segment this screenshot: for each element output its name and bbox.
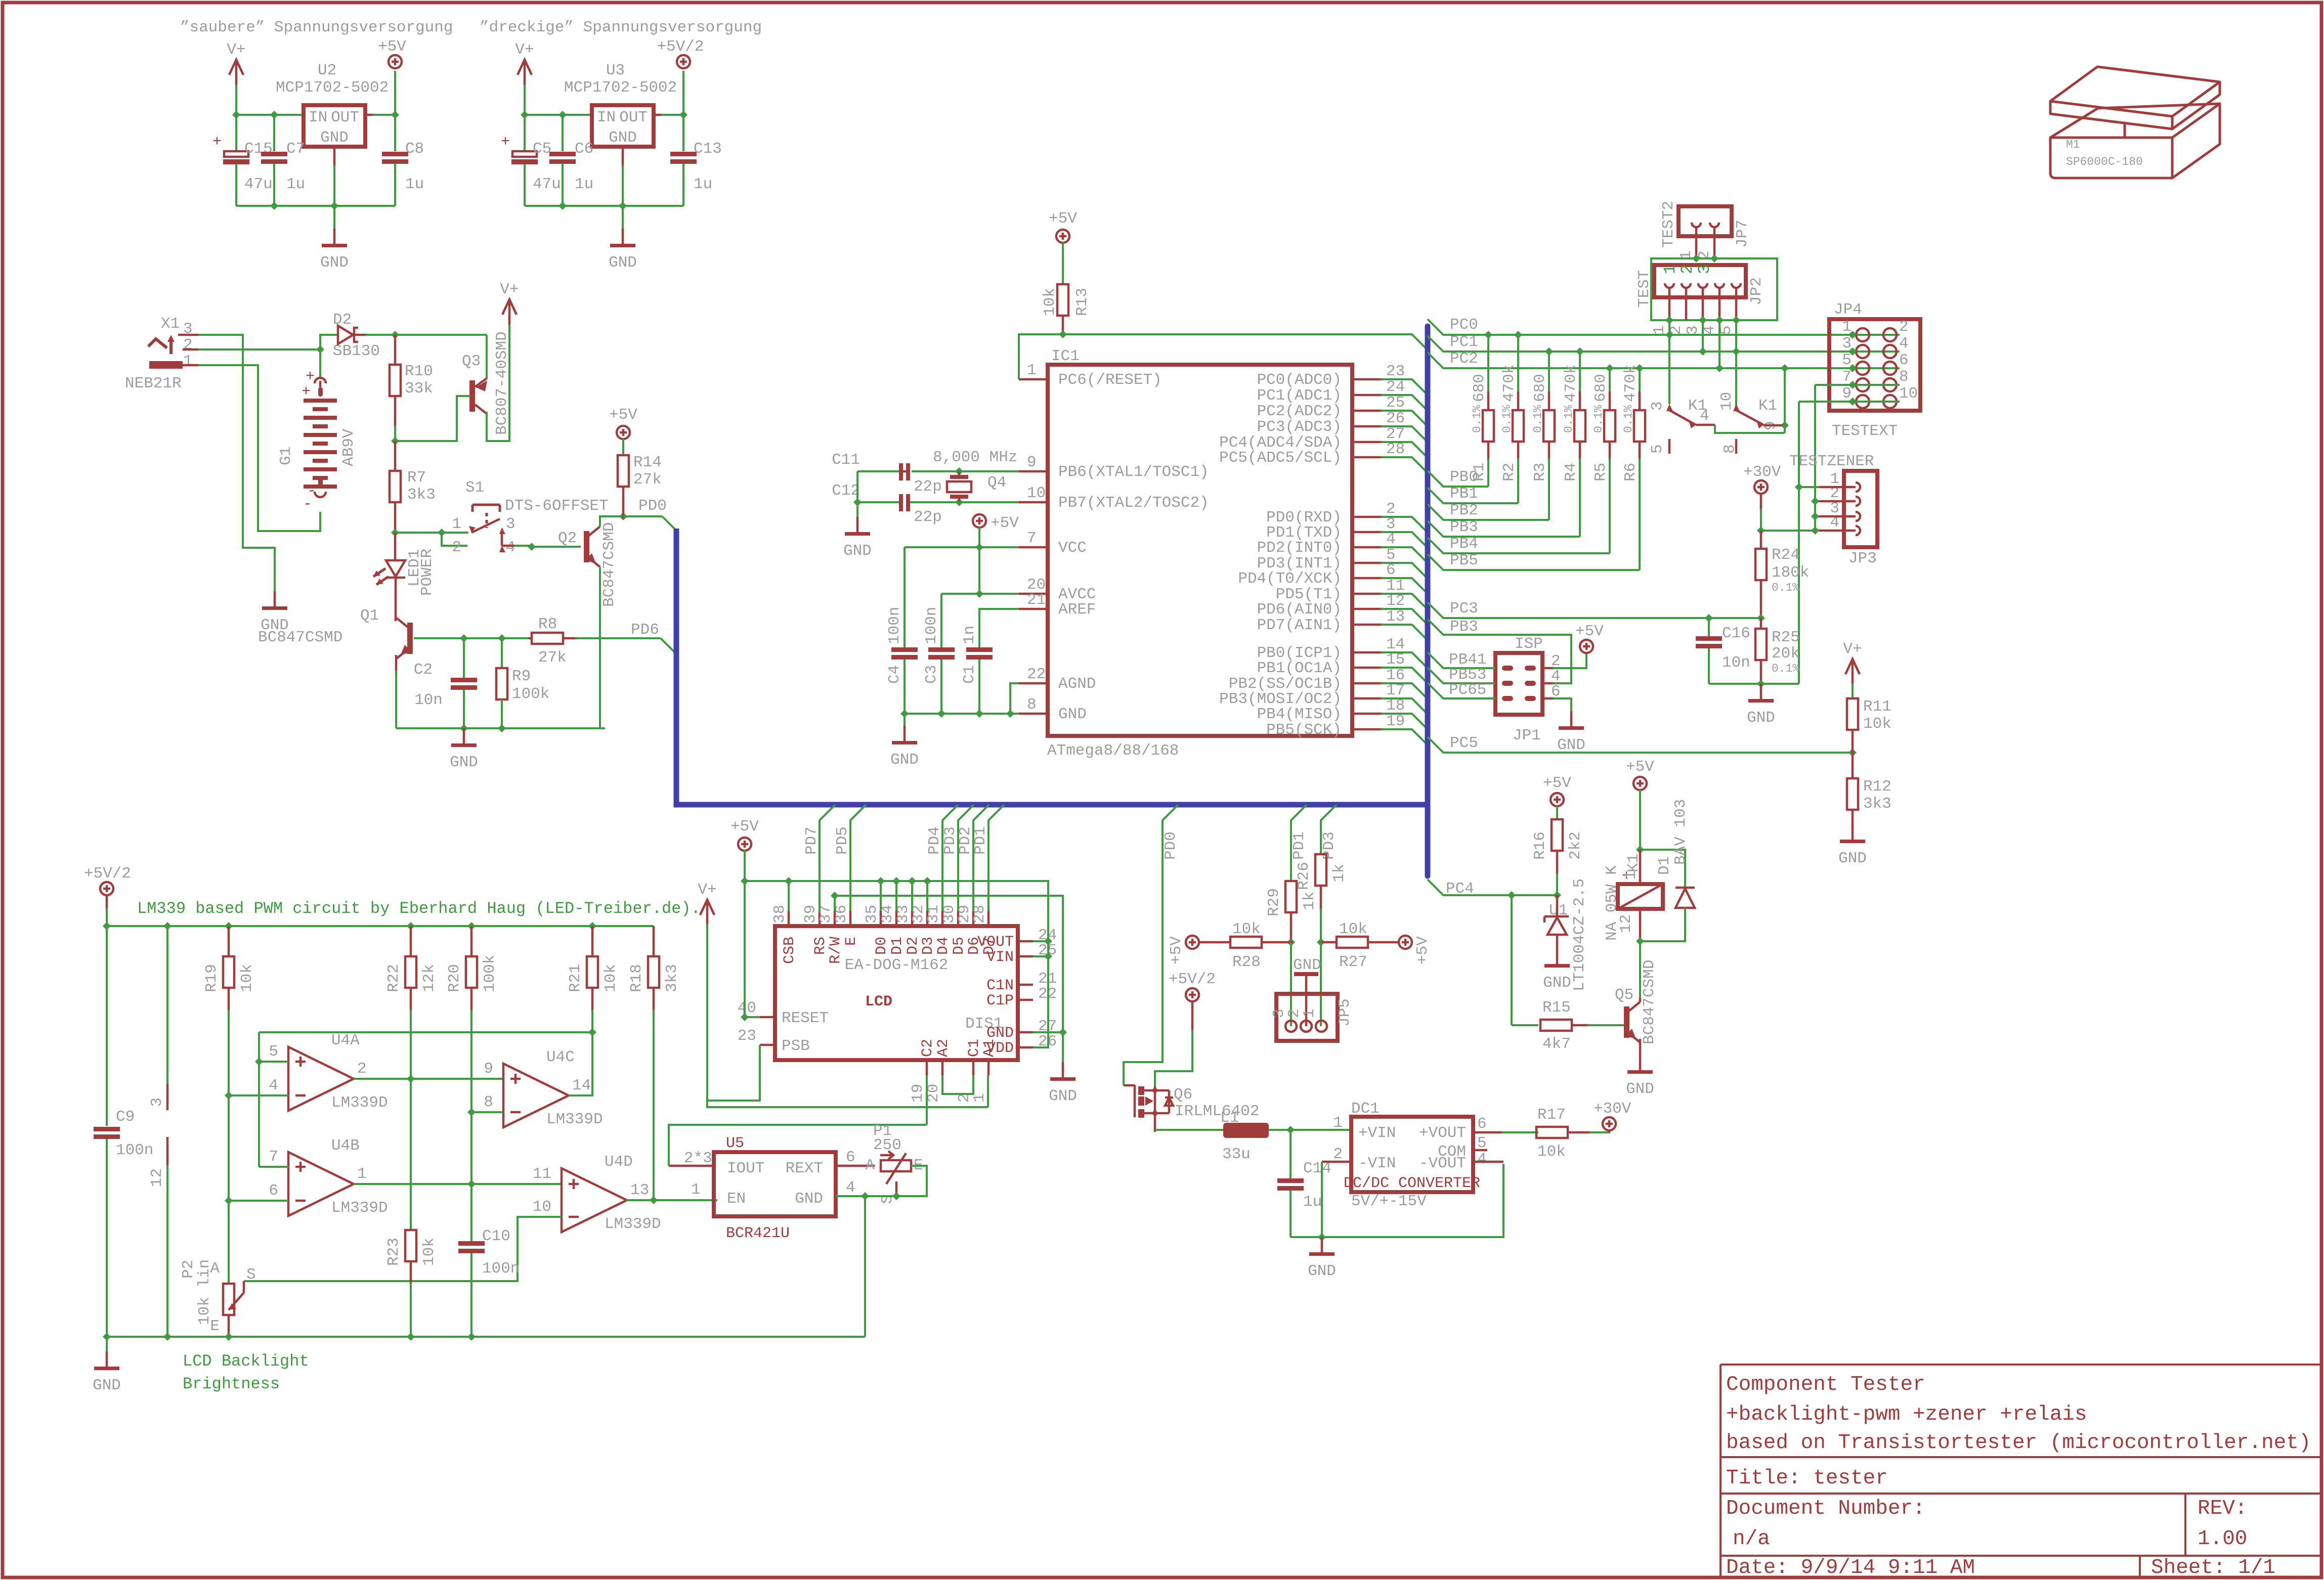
svg-text:A1: A1 — [981, 1039, 998, 1057]
DIS1 pin 32 D3 — [926, 911, 929, 926]
svg-text:R5: R5 — [1592, 463, 1610, 481]
wire — [1556, 806, 1558, 819]
junction — [225, 1197, 233, 1205]
junction — [407, 922, 415, 930]
svg-text:+: + — [501, 134, 510, 151]
wire P2 bottom — [228, 1315, 230, 1339]
wire IC1 pin 5 to bus — [1381, 563, 1427, 578]
svg-text:4: 4 — [1477, 1151, 1487, 1168]
V+ supply symbol — [502, 299, 517, 315]
svg-text:V+: V+ — [500, 281, 519, 298]
wire S1 pin4 stub — [502, 545, 516, 547]
svg-text:6: 6 — [846, 1149, 855, 1166]
resistor R6 — [1634, 410, 1645, 442]
junction — [1811, 497, 1819, 505]
junction — [407, 1075, 415, 1083]
capacitor C14 — [1277, 1178, 1304, 1183]
wire — [1799, 486, 1821, 488]
wire R21 bottom — [591, 1010, 593, 1032]
wire R25 top — [1760, 618, 1762, 629]
wire to JP5 pin3 — [1290, 942, 1292, 1026]
junction — [1848, 749, 1857, 757]
capacitor C5 (polarized) — [512, 151, 537, 157]
wire — [988, 805, 1004, 911]
svg-text:680: 680 — [1592, 374, 1610, 402]
wire R20 bottom — [470, 988, 473, 1012]
svg-text:R23: R23 — [385, 1238, 403, 1266]
connector JP5 — [1276, 994, 1338, 1041]
svg-text:10: 10 — [533, 1198, 551, 1216]
wire U2 GND pin — [333, 147, 336, 167]
wire +5V to VCC/AVCC — [978, 527, 980, 594]
wire Q1 collector — [395, 607, 397, 621]
junction — [407, 1333, 415, 1341]
svg-text:PC2: PC2 — [1450, 350, 1478, 368]
svg-text:22p: 22p — [914, 478, 942, 496]
svg-text:1u: 1u — [1303, 1193, 1322, 1211]
wire — [562, 164, 564, 206]
svg-text:100k: 100k — [481, 955, 499, 992]
wire R21 bottom — [591, 988, 594, 1012]
wire IC1 pin 15 to bus — [1381, 668, 1427, 682]
svg-text:+5V: +5V — [378, 38, 406, 56]
svg-text:PB0: PB0 — [1450, 468, 1478, 486]
wire R29 bottom — [1290, 912, 1293, 942]
wire R26 bottom — [1320, 886, 1322, 910]
svg-text:C16: C16 — [1722, 625, 1750, 642]
svg-text:7: 7 — [269, 1148, 278, 1166]
wire stem — [106, 895, 108, 910]
svg-text:PD4: PD4 — [926, 826, 943, 855]
wire U5 IOUT — [669, 1165, 714, 1167]
svg-text:GND: GND — [609, 254, 637, 272]
svg-text:1n: 1n — [961, 626, 978, 644]
svg-text:BC847CSMD: BC847CSMD — [600, 522, 618, 607]
svg-text:C8: C8 — [405, 140, 424, 158]
DIS1 pin 28 D7 — [987, 911, 990, 926]
wire IN net — [525, 114, 592, 116]
wire R1 top — [1487, 335, 1489, 393]
DIS1 pin 27 GND — [1018, 1031, 1033, 1034]
wire — [1428, 652, 1495, 668]
wire feedback — [259, 1031, 592, 1033]
wire PB3 line — [1428, 521, 1580, 537]
svg-text:PD0: PD0 — [638, 497, 667, 515]
svg-text:20k: 20k — [1772, 645, 1800, 663]
junction — [270, 111, 278, 119]
junction — [1044, 952, 1052, 960]
svg-text:C5: C5 — [533, 140, 551, 158]
svg-text:LM339D: LM339D — [546, 1111, 603, 1128]
svg-text:23: 23 — [738, 1027, 756, 1045]
wire — [1548, 458, 1550, 520]
wire — [486, 335, 488, 379]
svg-text:PC5(ADC5/SCL): PC5(ADC5/SCL) — [1219, 449, 1342, 467]
svg-text:1: 1 — [1027, 362, 1037, 379]
wire — [333, 206, 335, 229]
wire — [273, 164, 275, 206]
svg-text:40: 40 — [738, 999, 756, 1017]
junction — [1732, 316, 1740, 324]
supply symbol +5V — [1056, 230, 1069, 243]
wire gnd rail — [236, 205, 395, 207]
svg-text:X1: X1 — [161, 315, 180, 333]
op-amp U4A (LM339D comparator) — [288, 1047, 354, 1111]
capacitor C15 (polarized) — [224, 151, 248, 157]
wire R20 top — [470, 926, 473, 956]
svg-text:-VOUT: -VOUT — [1419, 1155, 1466, 1172]
svg-text:1: 1 — [1622, 870, 1640, 880]
wire JP2-4 to PC2 — [1718, 320, 1720, 368]
svg-text:GND: GND — [1557, 736, 1585, 754]
wire — [1815, 500, 1821, 502]
wire U4B +in — [259, 1166, 288, 1168]
wire C11 left — [857, 470, 899, 472]
svg-text:SP6000C-180: SP6000C-180 — [2066, 155, 2143, 168]
wire — [835, 896, 1063, 1032]
svg-text:V+: V+ — [515, 41, 534, 59]
capacitor C4 — [891, 647, 918, 652]
supply symbol +5V — [617, 426, 630, 439]
svg-text:6: 6 — [1899, 352, 1909, 369]
ground — [463, 728, 465, 743]
junction — [1286, 1126, 1295, 1134]
svg-text:1u: 1u — [286, 175, 305, 193]
IC1 pin 23 PC0(ADC0) — [1352, 378, 1383, 381]
svg-text:GND: GND — [1626, 1080, 1654, 1098]
svg-text:JP3: JP3 — [1848, 550, 1877, 567]
junction — [1006, 710, 1014, 718]
DIS1 pin 29 D6 — [972, 911, 975, 926]
wire JP2-1 to PC0/K1 — [1668, 320, 1670, 404]
svg-text:8: 8 — [1899, 368, 1909, 386]
wire — [942, 805, 958, 911]
DIS1 pin 21 C1N — [1018, 984, 1033, 986]
DIS1 pin 37 R/W — [834, 911, 836, 926]
svg-text:REV:: REV: — [2198, 1497, 2247, 1520]
wire — [106, 1139, 108, 1337]
wire to JP5 pin1 — [1320, 942, 1322, 1026]
svg-text:Document Number:: Document Number: — [1726, 1497, 1925, 1520]
wire U4B -in — [229, 1200, 288, 1202]
supply symbol +5V — [973, 514, 986, 528]
svg-text:0.1%: 0.1% — [1562, 405, 1575, 433]
svg-text:+5V/2: +5V/2 — [657, 38, 704, 56]
svg-text:PB4(MISO): PB4(MISO) — [1257, 706, 1342, 723]
svg-text:LM339 based PWM circuit by Ebe: LM339 based PWM circuit by Eberhard Haug… — [137, 899, 701, 918]
wire X1-3 to GND — [198, 335, 275, 592]
junction — [975, 543, 983, 551]
wire PC2 line — [1428, 353, 1900, 368]
svg-text:RESET: RESET — [782, 1010, 829, 1027]
wire — [1589, 1131, 1609, 1132]
wire R5 top — [1609, 368, 1611, 393]
svg-text:10k: 10k — [1537, 1143, 1566, 1161]
junction — [1715, 364, 1724, 372]
wire U4C out — [569, 1032, 592, 1095]
wire IC1 pin 23 to bus — [1381, 379, 1427, 394]
svg-text:8,000 MHz: 8,000 MHz — [933, 449, 1017, 466]
wire — [107, 925, 654, 927]
svg-text:GND: GND — [843, 542, 872, 560]
wire R28 left — [1198, 941, 1230, 944]
junction — [1848, 381, 1857, 389]
wire — [682, 71, 684, 115]
wire R1 bottom — [1487, 442, 1490, 460]
wire — [622, 206, 624, 229]
wire — [1512, 1024, 1538, 1026]
svg-text:S1: S1 — [465, 479, 484, 497]
junction — [1699, 316, 1707, 324]
wire R3 bottom — [1548, 442, 1551, 460]
wire C14 top — [1289, 1130, 1292, 1178]
svg-text:R18: R18 — [628, 964, 645, 992]
DIS1 pin 25 VIN — [1018, 955, 1033, 958]
wire IC1 pin 11 to bus — [1381, 594, 1427, 608]
svg-text:PC5: PC5 — [1450, 734, 1478, 752]
svg-text:25: 25 — [1386, 394, 1405, 412]
svg-text:R13: R13 — [1073, 288, 1091, 316]
supply symbol +5V — [1399, 936, 1412, 949]
junction — [1553, 891, 1561, 899]
wire U5 EN stub — [714, 1199, 715, 1202]
svg-text:6: 6 — [1386, 561, 1396, 579]
svg-text:RS: RS — [812, 937, 829, 955]
junction — [558, 111, 567, 119]
svg-text:GND: GND — [450, 754, 478, 771]
svg-text:9: 9 — [484, 1060, 493, 1078]
svg-text:C6: C6 — [575, 140, 593, 158]
junction — [1710, 254, 1718, 262]
wire — [394, 425, 396, 441]
DIS1 pin 20 A2 — [941, 1060, 944, 1075]
svg-text:D7: D7 — [981, 937, 998, 955]
svg-text:2: 2 — [1899, 318, 1909, 336]
wire U5 REXT to P1 — [836, 1165, 875, 1167]
IC1 pin 19 PB5(SCK) — [1352, 728, 1383, 731]
junction — [1848, 331, 1857, 339]
wire — [1155, 1030, 1192, 1086]
ground — [1062, 1062, 1064, 1077]
supply symbol +5V — [1186, 936, 1199, 949]
op-amp U4C (LM339D comparator) — [503, 1064, 569, 1127]
svg-text:C4: C4 — [886, 665, 903, 684]
wire zener gnd rail — [1709, 683, 1799, 685]
wire PD0 bus entry — [662, 516, 676, 530]
wire Q3 base to node — [395, 396, 470, 441]
wire R5 bottom — [1609, 442, 1611, 460]
svg-text:D4: D4 — [935, 937, 952, 955]
svg-text:U4A: U4A — [331, 1032, 360, 1049]
junction — [1514, 331, 1522, 339]
wire — [1062, 333, 1064, 335]
wire — [273, 115, 275, 151]
ground — [106, 1351, 108, 1367]
svg-text:R2: R2 — [1500, 463, 1518, 481]
svg-text:C7: C7 — [286, 140, 305, 158]
svg-text:Q5: Q5 — [1615, 986, 1633, 1004]
svg-text:470k: 470k — [1562, 365, 1580, 402]
wire R22 bottom — [410, 1010, 412, 1079]
svg-text:GND: GND — [1838, 850, 1867, 867]
svg-text:100n: 100n — [923, 607, 940, 644]
junction — [975, 710, 983, 718]
wire — [1852, 825, 1854, 827]
junction — [391, 529, 399, 537]
svg-text:PD6(AIN0): PD6(AIN0) — [1257, 601, 1342, 619]
capacitor C16 — [1696, 636, 1722, 641]
junction — [1692, 254, 1700, 262]
wire JP2-5 to PC1/K1-10 — [1735, 320, 1737, 408]
wire C12 left — [857, 501, 899, 503]
wire L1 to DC1 — [1269, 1129, 1351, 1131]
svg-text:Q1: Q1 — [360, 607, 379, 625]
wire — [987, 1075, 989, 1107]
DIS1 pin 40 RESET — [760, 1016, 775, 1019]
svg-text:R9: R9 — [512, 668, 531, 685]
resistor R4 — [1574, 410, 1585, 442]
wire C3 top — [940, 594, 942, 648]
junction — [1715, 316, 1724, 324]
DIS1 pin 38 CSB — [788, 911, 790, 926]
IC1 pin 21 AREF — [1019, 608, 1048, 610]
svg-text:470k: 470k — [1500, 365, 1518, 402]
wire Q2 collector — [600, 516, 623, 526]
svg-text:+5V: +5V — [1543, 774, 1571, 792]
svg-text:+VIN: +VIN — [1358, 1124, 1396, 1142]
wire IC1 pin 14 to bus — [1381, 652, 1427, 667]
svg-text:BC847CSMD: BC847CSMD — [1641, 960, 1658, 1044]
svg-text:0.1%: 0.1% — [1772, 662, 1799, 675]
wire pin10 net — [912, 501, 1019, 503]
junction — [225, 1333, 233, 1341]
resistor R8 — [532, 633, 563, 644]
wire — [235, 115, 237, 151]
svg-text:PC2(ADC2): PC2(ADC2) — [1257, 403, 1342, 420]
JP7 pin 1 — [1692, 223, 1701, 227]
wire AREF to C1 — [979, 609, 1019, 648]
svg-text:12: 12 — [148, 1168, 166, 1187]
svg-text:5: 5 — [269, 1043, 278, 1061]
wire — [958, 805, 974, 911]
svg-text:1: 1 — [452, 515, 461, 533]
wire — [1033, 1031, 1063, 1033]
svg-text:K1: K1 — [1758, 397, 1777, 415]
svg-text:EN: EN — [727, 1190, 746, 1208]
wire IC1 pin 17 to bus — [1381, 698, 1427, 713]
wire R4 bottom — [1579, 442, 1581, 460]
svg-text:PB7(XTAL2/TOSC2): PB7(XTAL2/TOSC2) — [1058, 494, 1209, 512]
JP2 pin 3 — [1698, 283, 1707, 288]
svg-text:10k: 10k — [1339, 920, 1367, 938]
svg-text:10n: 10n — [414, 691, 443, 709]
svg-text:PD1: PD1 — [1290, 831, 1308, 860]
DIS1 pin 35 D0 — [880, 911, 882, 926]
svg-text:PD2(INT0): PD2(INT0) — [1257, 539, 1342, 557]
IC1 pin 28 PC5(ADC5/SCL) — [1352, 456, 1383, 459]
DIS1 pin 31 D4 — [941, 911, 944, 926]
wire PD0 net — [623, 515, 662, 517]
wire LED1 cathode — [395, 578, 397, 607]
svg-text:Q4: Q4 — [987, 474, 1006, 492]
svg-text:GND: GND — [320, 254, 349, 272]
wire battery + stub — [319, 349, 321, 379]
svg-text:15: 15 — [1386, 651, 1405, 669]
wire C9 top — [106, 926, 108, 1126]
DIS1 pin 30 D5 — [957, 911, 960, 926]
svg-text:-: - — [303, 496, 312, 513]
junction — [1665, 316, 1673, 324]
svg-text:1: 1 — [1301, 1008, 1318, 1018]
capacitor C13 — [670, 152, 697, 156]
wire R12 bottom — [1852, 810, 1854, 829]
svg-text:Q3: Q3 — [462, 353, 481, 370]
wire — [1320, 908, 1322, 942]
IC1 pin 27 PC4(ADC4/SDA) — [1352, 441, 1383, 444]
wire IN net — [236, 114, 304, 116]
IC1 pin 17 PB3(MOSI/OC2) — [1352, 697, 1383, 700]
wire to R23 — [410, 1079, 412, 1230]
svg-text:47u: 47u — [244, 175, 273, 193]
svg-text:19: 19 — [1386, 713, 1405, 730]
wire — [1428, 619, 1571, 683]
wire R7 bottom — [394, 502, 397, 533]
svg-text:VCC: VCC — [1058, 539, 1087, 557]
DIS1 pin 2 C1 — [972, 1060, 975, 1075]
IC1 pin 16 PB2(SS/OC1B) — [1352, 682, 1383, 685]
junction — [558, 202, 567, 210]
svg-text:1u: 1u — [694, 175, 712, 193]
wire — [394, 115, 396, 151]
wire Q5 emitter — [1639, 1039, 1642, 1056]
wire IC1 pin 25 to bus — [1381, 411, 1427, 425]
wire — [394, 164, 396, 206]
junction — [1699, 347, 1707, 356]
svg-text:MCP1702-5002: MCP1702-5002 — [276, 79, 389, 97]
wire DC1 -VIN — [1322, 1161, 1351, 1163]
svg-text:3: 3 — [1684, 325, 1702, 335]
svg-text:R22: R22 — [385, 964, 403, 992]
svg-text:3: 3 — [1842, 335, 1852, 353]
supply symbol +30V — [1754, 480, 1768, 494]
capacitor C10 — [458, 1241, 485, 1246]
wire R25 bottom — [1760, 660, 1762, 684]
svg-text:R25: R25 — [1772, 629, 1800, 646]
wire — [1639, 458, 1641, 570]
svg-text:LCD Backlight: LCD Backlight — [183, 1352, 309, 1371]
svg-text:12: 12 — [1386, 592, 1405, 610]
svg-text:R7: R7 — [407, 469, 426, 487]
wire — [235, 164, 237, 206]
svg-text:0.1%: 0.1% — [1531, 405, 1544, 433]
resistor R24 — [1755, 549, 1767, 580]
svg-text:35: 35 — [863, 905, 881, 924]
svg-text:R4: R4 — [1562, 463, 1580, 481]
wire R20 bottom — [470, 1010, 472, 1112]
V+ supply symbol — [1845, 659, 1860, 674]
svg-text:12: 12 — [1617, 914, 1635, 933]
wire D1 anode — [1640, 908, 1685, 941]
svg-text:2: 2 — [452, 539, 461, 556]
IC1 pin 1 PC6(/RESET) — [1019, 378, 1048, 381]
wire — [903, 660, 906, 714]
svg-text:10n: 10n — [1722, 654, 1750, 672]
JP3 pin 4 — [1856, 526, 1860, 535]
wire to D2 anode — [320, 335, 338, 349]
svg-text:250: 250 — [873, 1136, 901, 1154]
svg-text:33u: 33u — [1222, 1146, 1251, 1163]
wire X1-1 to battery- — [198, 365, 320, 531]
